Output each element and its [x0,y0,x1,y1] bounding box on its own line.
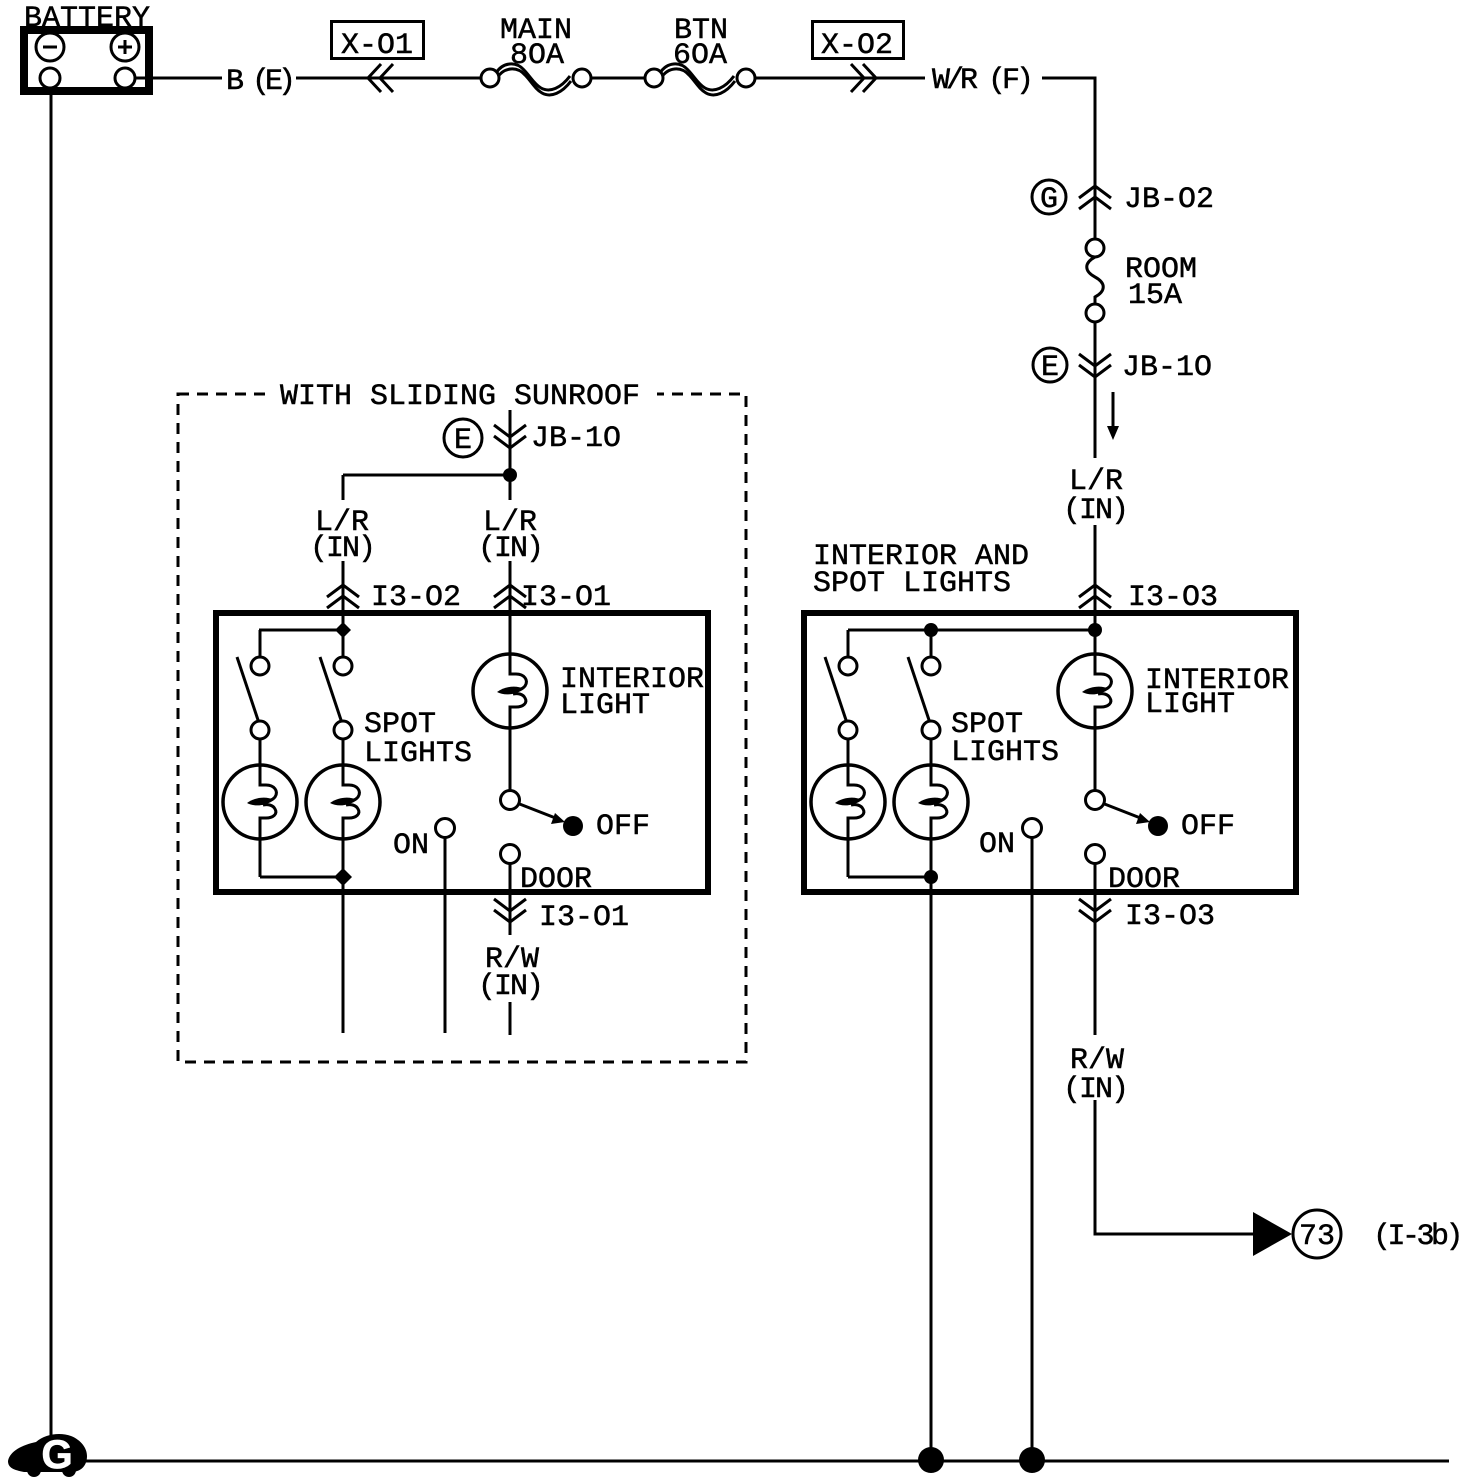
svg-text:SPOT LIGHTS: SPOT LIGHTS [813,567,1011,601]
svg-text:X-O1: X-O1 [341,29,413,63]
svg-text:8OA: 8OA [510,39,564,73]
svg-text:JB-1O: JB-1O [1122,351,1212,385]
svg-text:15A: 15A [1128,279,1182,313]
svg-text:(IN): (IN) [478,532,542,566]
svg-text:ON: ON [393,829,429,863]
svg-text:E: E [454,424,472,458]
svg-text:(I-3b): (I-3b) [1373,1220,1460,1254]
svg-text:I3-O1: I3-O1 [521,581,611,615]
svg-text:JB-O2: JB-O2 [1124,183,1214,217]
svg-text:(IN): (IN) [1063,494,1127,528]
svg-text:LIGHTS: LIGHTS [364,737,472,771]
svg-text:ON: ON [979,828,1015,862]
svg-text:BATTERY: BATTERY [24,2,150,36]
svg-text:DOOR: DOOR [520,863,592,897]
svg-text:(IN): (IN) [478,970,542,1004]
svg-text:X-O2: X-O2 [821,29,893,63]
svg-text:I3-O3: I3-O3 [1128,581,1218,615]
svg-text:I3-O3: I3-O3 [1125,900,1215,934]
svg-text:LIGHT: LIGHT [560,689,650,723]
svg-text:(IN): (IN) [1063,1073,1127,1107]
svg-text:OFF: OFF [596,810,650,844]
svg-text:I3-O2: I3-O2 [371,581,461,615]
svg-text:(IN): (IN) [310,532,374,566]
svg-text:LIGHTS: LIGHTS [951,736,1059,770]
svg-text:I3-O1: I3-O1 [539,901,629,935]
svg-text:LIGHT: LIGHT [1145,688,1235,722]
svg-text:JB-1O: JB-1O [531,422,621,456]
svg-text:73: 73 [1299,1220,1335,1254]
svg-text:W/R (F): W/R (F) [932,64,1030,98]
svg-text:G: G [41,1433,72,1477]
svg-text:6OA: 6OA [673,39,727,73]
svg-text:E: E [1041,351,1059,385]
svg-text:WITH SLIDING SUNROOF: WITH SLIDING SUNROOF [280,380,640,414]
svg-text:G: G [1040,183,1058,217]
svg-text:B (E): B (E) [226,65,291,99]
svg-text:DOOR: DOOR [1108,863,1180,897]
svg-text:OFF: OFF [1181,810,1235,844]
